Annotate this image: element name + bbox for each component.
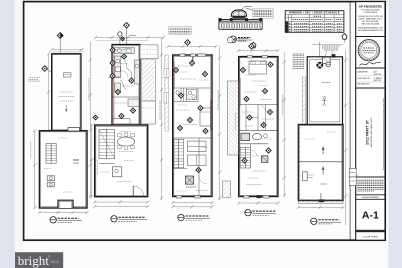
leader squiggles in kitchen xyxy=(124,60,133,79)
bottom dim xyxy=(239,202,278,204)
svg-text:DESIGN NUMBER: DESIGN NUMBER xyxy=(362,197,379,199)
entry door arc xyxy=(132,186,134,197)
title block strip line xyxy=(349,2,351,241)
ridge line xyxy=(298,161,343,163)
svg-text:CHECKED BY:: CHECKED BY: xyxy=(357,78,371,80)
bath fixtures xyxy=(241,133,250,140)
scattered tiny labels xyxy=(121,131,132,133)
main lower walls xyxy=(95,125,148,197)
title block: edge disclaimer (rotated) xyxy=(382,98,384,170)
bottom dim xyxy=(173,202,212,204)
cellar main walls xyxy=(39,131,87,208)
dining table xyxy=(117,137,134,146)
deck top right (dashed) xyxy=(140,45,158,59)
top dim line xyxy=(96,37,164,39)
outer walls xyxy=(239,57,278,197)
hall / closets xyxy=(173,137,212,139)
yard interior marks xyxy=(64,73,72,77)
plan 4: third floor plan xyxy=(223,37,280,205)
top dim xyxy=(239,50,278,52)
maroon section lines xyxy=(173,62,175,90)
powder room xyxy=(112,167,121,177)
stair xyxy=(240,147,251,168)
windows top wall p3 xyxy=(180,54,185,57)
washer dark box xyxy=(186,176,194,184)
windows bottom wall p4 xyxy=(244,195,250,198)
svg-text:BALTIMORE, MARYLAND 21224: BALTIMORE, MARYLAND 21224 xyxy=(370,117,373,148)
note box top left xyxy=(169,27,191,35)
plan 5: roof plan xyxy=(293,42,345,209)
bedroom divider xyxy=(173,87,212,89)
access figure xyxy=(323,97,326,100)
svg-text:WINDOW / SKY / DOOR SCHEDULE: WINDOW / SKY / DOOR SCHEDULE xyxy=(289,11,340,15)
vertical dimension lines between plans xyxy=(89,42,91,197)
svg-text:bright: bright xyxy=(18,253,49,268)
plan 2: first floor plan xyxy=(90,23,165,209)
tiny label xyxy=(321,183,328,185)
svg-text:REVISED BY:: REVISED BY: xyxy=(357,84,370,86)
roof label xyxy=(322,82,331,84)
bottom dim xyxy=(298,206,343,208)
top dim xyxy=(168,45,216,47)
upper roof walls xyxy=(307,57,342,125)
party wall hatch lower xyxy=(299,125,301,200)
roof note leader text xyxy=(322,45,340,47)
stair xyxy=(99,129,115,159)
side porch hatch xyxy=(142,59,156,101)
yard dim line xyxy=(52,49,84,51)
svg-text:FLOOR PLANS: FLOOR PLANS xyxy=(363,235,379,238)
plan 3: second floor plan xyxy=(164,27,218,209)
p4 mid band dividers xyxy=(245,105,247,131)
title block: PE seal xyxy=(358,40,379,61)
chimney box on left wall xyxy=(303,172,308,181)
slope arrows xyxy=(322,147,324,155)
rear porch open rect below hatch xyxy=(142,101,156,124)
svg-text:FAX: (301) 350-6486: FAX: (301) 350-6486 xyxy=(362,22,380,25)
svg-text:MLS: MLS xyxy=(51,260,59,264)
bulkhead box xyxy=(323,57,331,63)
bottom dim xyxy=(95,201,148,203)
stair xyxy=(174,139,184,168)
extra annotation clutter plan2 xyxy=(116,49,130,51)
kitchen counters along top xyxy=(115,48,135,54)
svg-text:DRAWN BY:: DRAWN BY: xyxy=(357,71,369,74)
title block outline xyxy=(356,2,385,241)
vent circle xyxy=(326,62,331,67)
exhaust fan (dark) xyxy=(316,62,323,69)
party wall hatch upper xyxy=(302,77,305,125)
cellar fixtures xyxy=(47,176,54,181)
master bed xyxy=(249,61,267,74)
extra annotation clutter plan3 xyxy=(178,65,192,67)
cellar stair xyxy=(46,143,56,163)
svg-text:INFO@APENGINEERS.COM: INFO@APENGINEERS.COM xyxy=(358,29,383,32)
svg-text:CAD: CAD xyxy=(73,162,78,165)
maroon line xyxy=(239,78,241,106)
window tag symbol below table xyxy=(342,34,347,40)
p4 rotated dim text left xyxy=(234,112,236,130)
lower roof walls xyxy=(298,125,343,201)
rear kitchen ell walls xyxy=(112,45,140,126)
small hatch block bottom-left of p4 xyxy=(223,181,231,198)
svg-text:2712 PRATT ST: 2712 PRATT ST xyxy=(365,119,369,145)
bath cluster xyxy=(187,89,197,99)
svg-text:CONSULTANTS: CONSULTANTS xyxy=(363,11,378,14)
p3 bath band dividers xyxy=(180,88,182,102)
outer walls xyxy=(173,55,212,197)
left dim line xyxy=(34,131,36,208)
rear yard walls xyxy=(52,54,81,131)
title block: project name (rotated) xyxy=(365,117,373,148)
legend boxes left of title block xyxy=(349,169,356,178)
top dim line xyxy=(312,43,343,45)
bright MLS watermark xyxy=(15,252,63,268)
left deck hatch xyxy=(228,81,239,155)
roof notes block left xyxy=(293,53,305,55)
title block: signature xyxy=(360,62,381,65)
window/door schedule table xyxy=(285,11,344,33)
windows top wall p4 xyxy=(247,55,252,58)
bottom dim xyxy=(39,212,87,214)
title block: disclaimer paragraph xyxy=(357,179,383,181)
pentagon tag near detail xyxy=(251,42,256,48)
plan 1: cellar plan xyxy=(29,33,89,215)
roof detail tag xyxy=(230,36,237,43)
section line (maroon) xyxy=(112,46,114,122)
party wall hatch strip left of p3 xyxy=(165,55,168,131)
dark box on wall xyxy=(332,54,336,57)
roof/skylight detail xyxy=(219,6,274,29)
W/D dark box xyxy=(261,156,268,163)
svg-text:AP ENGINEERS: AP ENGINEERS xyxy=(359,5,382,9)
front parapet hatch xyxy=(298,201,343,204)
note text left xyxy=(29,77,41,79)
p4 bottom threshold xyxy=(257,195,262,198)
room dividers xyxy=(239,104,278,106)
note tag top xyxy=(227,37,233,43)
svg-text:A-1: A-1 xyxy=(362,210,379,222)
kitchen counter left strip xyxy=(115,56,121,77)
p3 bed right side xyxy=(200,108,211,126)
cellar bottom step xyxy=(58,200,73,208)
extra annotation clutter plan4 xyxy=(252,80,266,82)
windows bottom wall p3 xyxy=(176,195,182,198)
center stem at bottom xyxy=(320,193,322,201)
